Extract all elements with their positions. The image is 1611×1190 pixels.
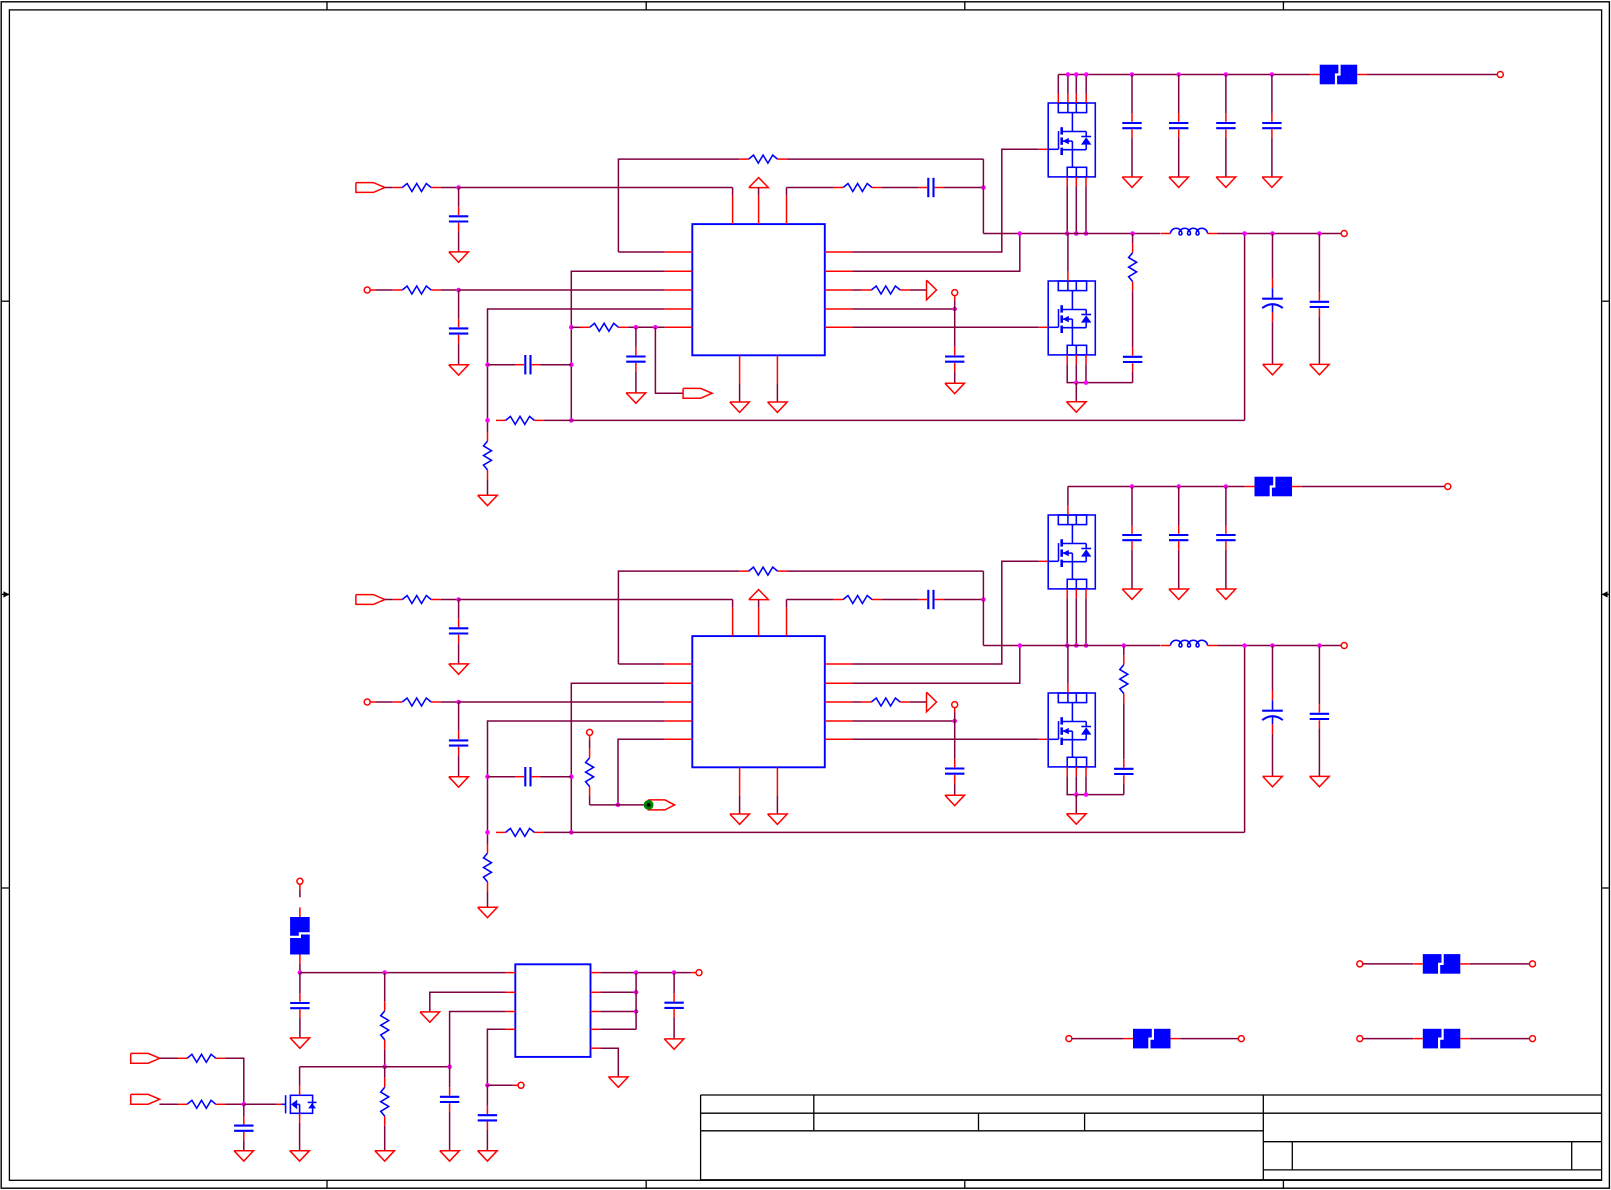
pin U2 bottom x739.6 [739,767,741,796]
pin U2 left 4 [665,720,693,722]
wire JP top-right a [1363,963,1413,965]
wire U3 circle to jumper [299,889,301,897]
transistor Q1 - U1 high-side FET [1039,94,1095,187]
resistor R14 - U2 divider lower [484,844,492,892]
pin U2 circle stub [954,708,956,713]
wire U1 hFET pin 1067.2 to SW [1066,186,1068,233]
wire U2 feedback riser [1244,646,1246,833]
pin U2 sense circle stub [589,735,591,740]
wire U2 L5 route [618,739,665,805]
wire U1 VIN cap drop 1132.0 [1131,75,1133,114]
wire U1 circle to node [954,301,956,310]
pin U3 right 3 [591,1011,601,1013]
wire U1 comp cap left [488,364,516,366]
junction U3 L4 node [485,1083,490,1088]
wire U3 drain riser [299,1067,301,1086]
wire U2 L4 divider [488,721,665,844]
wire U2 feedback long [571,831,1244,833]
junction U3 rail a [298,970,303,975]
wire U2 R1 to gate [853,561,1039,664]
capacitor C17 - U2 compensation [516,767,540,786]
wire U1 boost h1 [787,187,834,189]
ground U2 R4 cap [945,795,965,805]
junction U3 rail b [382,970,387,975]
pin U2 top x732.6 [732,607,734,636]
wire JP bottom-left b [1180,1038,1238,1040]
wire U2 boost h2 [882,599,919,601]
wire U1 second input to IC [459,289,665,291]
wire U3 gate wire [244,1103,276,1105]
offpage circle U3 bypass [518,1082,524,1088]
wire U2 snub a [1123,646,1125,656]
wire U3 L3 cap gnd [449,1112,451,1151]
wire U1 L5 cap gnd [635,371,637,393]
junction U1 out fb [1242,231,1247,236]
pin U2 right 5 [825,738,853,740]
resistor R8 - U1 L5 series [580,323,628,331]
capacitor C9 - U1 VIN 1225.9 [1216,113,1235,137]
pin U1 right 3 [825,289,853,291]
wire U2 VIN cap drop 1225.9 [1225,487,1227,526]
wire U1 cap2 to gnd [458,343,460,365]
ground U2 VIN cap 1178.7 [1169,589,1189,599]
ground U3 out cap [664,1039,684,1049]
wire U1 R2 to node [441,289,459,291]
wire U2 out rail [1217,645,1341,647]
wire U3 R5 route [600,1048,618,1077]
capacitor C21 - U2 VIN 1225.9 [1216,525,1235,549]
wire U1 corner down to IC top pin1 [732,188,734,196]
junction U3 R1 bus [634,970,639,975]
pin U1 top x758.6 [758,195,760,224]
wire U2 VIN cap gnd 1132.0 [1131,550,1133,589]
wire U3 fb row [300,1066,450,1068]
wire U3 gcap a [243,1104,245,1116]
wire U3 div b [384,1049,386,1066]
wire U1 VIN cap gnd 1225.9 [1225,138,1227,177]
wire U1 R2 to SW [853,234,1020,272]
wire U2 input cap drop [458,600,460,619]
wire U1 L1 stub [618,251,664,253]
wire U2 ocap2 drop [1318,646,1320,705]
ground U1 VIN cap 1271.9 [1262,177,1282,187]
transistor Q5 - U3 pass FET [276,1086,316,1123]
jumper JP6 - JP bottom-right [1413,1028,1470,1049]
port P3 - U2 enable input [356,595,385,605]
inductor L2 - U2 output [1161,640,1217,647]
wire U1 fb top run [618,159,739,252]
junction U2 comp v2 [569,774,574,779]
wire U1 hFET pin 1076.3 to SW [1075,186,1077,233]
ground U2 IC pin 739.6 [730,814,750,824]
capacitor C19 - U2 VIN 1132.0 [1122,525,1141,549]
jumper JP5 - JP top-right [1413,954,1470,975]
wire U1 SW rail [983,233,1160,235]
wire U1 L5 cap drop [635,327,637,347]
offpage circle U2 R4 [952,702,958,708]
offpage circle U2 VIN [1445,484,1451,490]
capacitor C11 - U1 snubber [1123,347,1142,371]
wire U1 R5 to low gate [853,326,1039,328]
wire U2 cap2 to gnd [458,755,460,777]
wire U2 node to sense R [590,804,618,806]
pin U1 left 4 [665,308,693,310]
wire U1 lFET gnd row [1067,364,1132,382]
pin U2 top x786.5 [786,607,788,636]
capacitor C28 - U3 L4 [478,1106,497,1130]
junction U3 gate node [242,1102,247,1107]
IC U2 - U2 buck controller [692,636,825,767]
wire U3 rail [300,972,506,974]
resistor R2 - U1 second input [393,286,441,294]
wire U1 comp res right [544,419,571,421]
ground U2 IC pin 777.4 [768,814,788,824]
wire U2 L2 comp vertical [571,683,664,832]
junction U1 out cap2 [1317,231,1322,236]
wire U1 L4 divider [488,309,665,432]
resistor R6 - U1 compensation [496,416,544,424]
junction U2 div2 [485,830,490,835]
wire U2 ocap1 drop [1272,646,1274,691]
junction U2 boost node [981,597,986,602]
resistor R5 - U1 divider lower [484,432,492,480]
wire U1 circle to R2 [375,289,392,291]
ground U1 R4 cap [945,383,965,393]
pin U3 left 4 [506,1028,516,1030]
wire U3 div c [384,1067,386,1078]
wire U1 ocap2 drop [1318,234,1320,293]
capacitor C7 - U1 VIN 1132.0 [1122,113,1141,137]
wire U1 input cap to gnd [458,231,460,252]
pin U2 bottom x777.4 [776,767,778,796]
resistor R15 - U2 compensation [496,828,544,836]
resistor R21 - U3 input1 [178,1054,226,1062]
offpage circle JP bottom-right left [1357,1036,1363,1042]
pin U1 left 1 [665,251,693,253]
offpage circle U1 feedback input [364,287,370,293]
offpage circle JP bottom-left right [1238,1036,1244,1042]
wire U1 VIN cap drop 1225.9 [1225,75,1227,114]
resistor R19 - U3 divider upper [381,1001,389,1049]
resistor R7 - U1 R3 series [862,286,910,294]
wire JP bottom-right b [1470,1038,1530,1040]
wire U1 boost h3 [943,187,983,189]
resistor R10 - U2 input series [393,596,441,604]
wire U2 corner down to IC top pin1 [732,600,734,608]
offpage circle U2 sense [587,729,593,735]
pin U3 right 4 [591,1028,601,1030]
wire U2 R2 to SW [853,646,1020,684]
pin U1 circle stub [954,296,956,301]
wire U2 lFET pin2 drop [1075,776,1077,794]
offpage circle JP top-right left [1357,961,1363,967]
junction U2 out cap1 [1270,643,1275,648]
ground U2 input cap [449,664,469,674]
capacitor C23 - U2 output electrolytic [1262,691,1283,734]
pin U2 top x758.6 [758,607,760,636]
wire U3 L3 cap a [449,1067,451,1088]
junction U2 R4 node [952,719,957,724]
pin U3 right 2 [591,991,601,993]
wire U2 snub c [1123,784,1125,795]
wire U1 R4 cap drop [954,309,956,347]
junction U2 SW pin 1086.0 [1084,643,1089,648]
wire U2 circle to R2 [375,701,392,703]
ground U1 VIN cap 1178.7 [1169,177,1189,187]
wire U1 R3 a [853,289,862,291]
wire U3 R1 rail [600,972,691,974]
transistor Q3 - U2 high-side FET [1039,506,1095,599]
wire U2 input cap to gnd [458,643,460,664]
resistor R1 - U1 input series [393,184,441,192]
ground U1 cap2 [449,365,469,375]
resistor R16 - U2 R3 series [862,698,910,706]
wire U1 feedback long [571,419,1244,421]
wire U1 ocap1 drop [1272,234,1274,279]
ground U1 L5 cap [626,393,646,403]
ground U2 ocap1 [1263,776,1283,786]
pin U1 right 1 [825,251,853,253]
wire U2 R5 to low gate [853,738,1039,740]
wire U1 VIN cap drop 1178.7 [1178,75,1180,114]
junction U1 L5 port [653,325,658,330]
junction U1 comp v3 [569,418,574,423]
resistor R17 - U2 snubber [1120,655,1128,703]
wire U2 ocap1 gnd [1272,734,1274,777]
wire U1 input cap drop [458,188,460,207]
wire U2 second input to IC [459,701,665,703]
junction U2 out cap2 [1317,643,1322,648]
wire U1 VIN to circle [1367,74,1498,76]
junction U1 div1 [485,362,490,367]
wire U1 pwr stem [758,188,760,196]
wire U1 L5 to port [655,327,683,393]
wire U3 L2 gnd [430,992,506,1012]
wire U1 div gnd [487,480,489,496]
junction U1 VIN pin 1067.9 [1066,72,1071,77]
ground U1 ocap1 [1263,364,1283,374]
wire U1 cap2 drop [458,290,460,319]
wire U1 lFET gnd stem [1075,383,1077,402]
wire U2 VIN to circle [1302,486,1445,488]
port P5 - U3 input1 [131,1053,160,1063]
wire U2 fb top run [618,571,739,664]
ground U2 cap2 [449,777,469,787]
wire U2 lFET gnd row [1067,776,1124,794]
wire U3 R4 row [600,1028,636,1030]
junction U1 VIN pin 1086.2 [1084,72,1089,77]
ground U3 cap1 [290,1038,310,1048]
resistor R13 - U2 top feedback [739,567,787,575]
pointer PTR2 - U2 R3 out [927,692,937,712]
junction U1 VIN cap 1132.0 [1130,72,1135,77]
wire U2 fb top run right [787,570,983,572]
capacitor C18 - U2 R4 [945,759,964,783]
wire U2 VIN cap drop 1178.7 [1178,487,1180,526]
power symbol U2 VCC [749,590,769,600]
wire U2 boost corner [786,600,788,608]
capacitor C15 - U2 second input [449,731,468,755]
ground U1 divider [478,495,498,505]
junction U1 comp v2 [569,362,574,367]
wire U2 ocap2 gnd [1318,729,1320,777]
wire U2 boost h3 [943,599,983,601]
offpage circle U3 VIN [297,878,303,884]
wire U1 R3 b [910,289,927,291]
wire U3 ocap gnd [673,1018,675,1039]
junction U1 input node [456,185,461,190]
wire U2 port to R [385,599,393,601]
wire U1 VIN corner drop [1057,75,1059,94]
wire U3 cap1 drop [299,973,301,994]
wire JP bottom-right a [1363,1038,1413,1040]
ground U3 gate cap [234,1151,254,1161]
pin U2 right 1 [825,663,853,665]
resistor R18 - U2 sense [586,748,594,796]
pin U1 left 5 [665,326,693,328]
junction U2 SW pin 1067.2 [1065,643,1070,648]
pin U2 right 2 [825,682,853,684]
wire U1 VIN pin drop 1067.9 [1067,75,1069,94]
pin U2 right 4 [825,720,853,722]
wire U2 input node to IC pin corner [459,599,733,601]
junction U2 div1 [485,774,490,779]
pin U2 circle2 stub [370,701,375,703]
wire U3 R2 row [600,991,636,993]
junction U2 lFET row 1 [1074,792,1079,797]
ground U3 L2 [420,1012,440,1022]
ground U2 low FET [1067,814,1087,824]
capacitor C6 - U1 L5 [626,347,645,371]
wire U2 R3 a [853,701,862,703]
wire U2 gnd pin 739.6 [739,796,741,814]
wire U3 bus vertical [635,973,637,1030]
capacitor C5 - U1 R4 [945,347,964,371]
resistor R11 - U2 second input [393,698,441,706]
junction U1 VIN cap 1271.9 [1270,72,1275,77]
ground U1 input cap [449,252,469,262]
wire U1 VIN rail [1058,74,1310,76]
pin U1 top x786.5 [786,195,788,224]
wire U2 comp res right [544,831,571,833]
offpage circle U1 R4 [952,290,958,296]
pin U3 right 1 [591,972,601,974]
capacitor C22 - U2 snubber [1114,759,1133,783]
junction U2 VIN cap 1178.7 [1176,484,1181,489]
ground U1 VIN cap 1132.0 [1122,177,1142,187]
offpage circle U1 VOUT [1341,231,1347,237]
wire U2 SW to low FET [1067,646,1069,684]
pin U2 left 1 [665,663,693,665]
ground U1 VIN cap 1225.9 [1216,177,1236,187]
offpage circle U2 feedback input [364,699,370,705]
junction U1 SW pin 1086.0 [1084,231,1089,236]
resistor R12 - U2 boost [834,596,882,604]
wire U2 R4 cap drop [954,721,956,759]
capacitor C26 - U3 gate [234,1116,253,1140]
junction U3 R2 bus [634,990,639,995]
resistor R4 - U1 top feedback [739,155,787,163]
wire U2 VIN rail [1068,486,1245,488]
offpage circle JP bottom-left left [1066,1036,1072,1042]
junction U2 lFET row 2 [1084,792,1089,797]
title block [701,1095,1602,1180]
wire U1 VIN cap gnd 1271.9 [1271,138,1273,177]
transistor Q2 - U1 low-side FET [1039,272,1095,365]
capacitor C4 - U1 compensation [516,355,540,374]
wire U2 R3 b [910,701,927,703]
wire U2 node to green port [618,804,644,806]
inductor L1 - U1 output [1161,228,1217,235]
wire U1 R4 cap gnd [954,371,956,383]
wire U3 L4 route [487,1029,505,1085]
wire U2 circle to node [954,713,956,722]
pin U1 left 2 [665,270,693,272]
junction U3 R3 bus [634,1009,639,1014]
wire U3 cap1 gnd [299,1018,301,1038]
offpage circle U3 VOUT [696,970,702,976]
wire U2 VIN cap drop 1132.0 [1131,487,1133,526]
wire U2 VIN corner drop [1067,487,1069,506]
junction U1 div2 [485,418,490,423]
wire U3 L4 cap gnd [486,1130,488,1151]
jumper JP1 - U1 VIN sense [1310,64,1367,85]
wire U1 snub b [1132,291,1134,347]
wire U1 L5 red a [571,326,581,328]
wire U2 hFET pin 1086.0 to SW [1085,598,1087,645]
resistor R22 - U3 input2 [178,1100,226,1108]
wire U2 comp cap left [488,776,516,778]
capacitor C13 - U1 output ceramic [1310,292,1329,316]
ground U3 R5 [609,1077,629,1087]
pin U3 circle stub [299,884,301,889]
transistor Q4 - U2 low-side FET [1039,684,1095,777]
junction U1 R4 node [952,307,957,312]
port P6 - U3 input2 [131,1094,160,1104]
wire U2 boost vertical [982,571,984,645]
junction U2 SW pin 1076.3 [1074,643,1079,648]
pin U2 right 3 [825,701,853,703]
pin U3 left 1 [506,972,516,974]
capacitor C2 - U1 second input [449,319,468,343]
wire U2 L1 stub [618,663,664,665]
offpage circle JP top-right right [1530,961,1536,967]
pin U3 left 3 [506,1011,516,1013]
junction U2 out fb [1242,643,1247,648]
pin U1 bottom x739.6 [739,355,741,384]
junction U1 boost node [981,185,986,190]
junction U2 comp v3 [569,830,574,835]
junction U2 input node [456,597,461,602]
offpage circle U2 VOUT [1341,643,1347,649]
pin U3 L4 circle stub [513,1084,518,1086]
junction U1 VIN cap 1225.9 [1224,72,1229,77]
port P1 - U1 enable input [356,183,385,193]
wire U2 R2 to node [441,701,459,703]
capacitor C12 - U1 output electrolytic [1262,279,1283,322]
wire U3 L4 to circle [487,1084,513,1086]
wire U1 out rail [1217,233,1341,235]
ground U1 IC pin 777.4 [768,402,788,412]
wire U3 in1 a [159,1057,177,1059]
capacitor C29 - U3 output [664,993,683,1017]
junction U2 VIN cap 1225.9 [1224,484,1229,489]
wire JP top-right b [1470,963,1530,965]
junction U1 SW pin 1076.3 [1074,231,1079,236]
wire U3 jumper to rail [299,964,301,973]
pin U1 right 5 [825,326,853,328]
junction U2 VIN cap 1132.0 [1130,484,1135,489]
